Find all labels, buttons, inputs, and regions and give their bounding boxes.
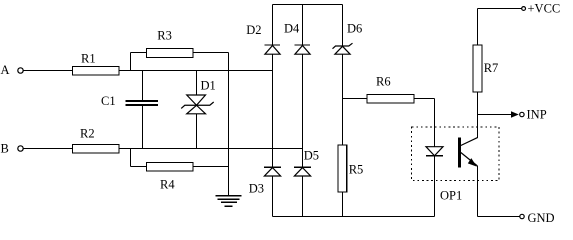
svg-text:A: A xyxy=(1,63,10,77)
svg-text:C1: C1 xyxy=(101,94,116,108)
svg-text:R2: R2 xyxy=(80,126,95,140)
svg-text:INP: INP xyxy=(527,108,547,122)
svg-text:GND: GND xyxy=(528,211,555,225)
svg-text:R5: R5 xyxy=(349,163,364,177)
svg-text:+VCC: +VCC xyxy=(528,2,561,16)
svg-text:R6: R6 xyxy=(376,75,391,89)
svg-text:OP1: OP1 xyxy=(440,189,462,203)
svg-text:D2: D2 xyxy=(246,23,261,37)
svg-text:D5: D5 xyxy=(304,149,319,163)
svg-text:R3: R3 xyxy=(157,29,172,43)
svg-text:D1: D1 xyxy=(201,79,216,93)
svg-text:D4: D4 xyxy=(284,22,300,36)
svg-text:R7: R7 xyxy=(484,61,499,75)
svg-text:B: B xyxy=(1,142,9,156)
svg-text:D6: D6 xyxy=(347,22,362,36)
svg-text:R4: R4 xyxy=(160,178,175,192)
svg-text:R1: R1 xyxy=(81,52,96,66)
svg-text:D3: D3 xyxy=(249,182,264,196)
